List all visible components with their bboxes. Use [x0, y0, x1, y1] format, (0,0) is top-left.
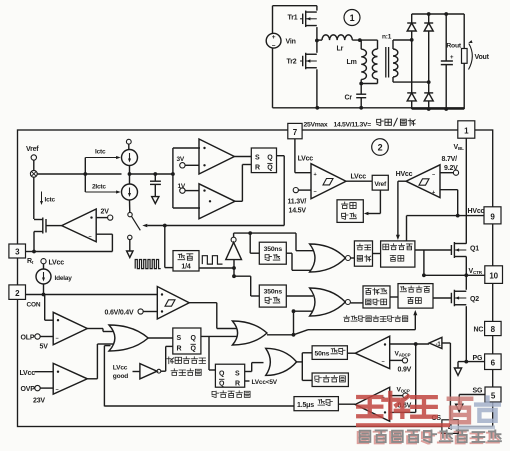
svg-text:+: +	[314, 172, 317, 178]
node oscillator cap	[128, 172, 132, 176]
svg-text:0.6V/0.4V: 0.6V/0.4V	[105, 310, 134, 317]
node Vref summing	[30, 160, 37, 177]
wire HVcc comp output to driver	[396, 181, 406, 240]
wire skip comp to OR gate	[189, 303, 237, 329]
svg-text:8.7V/: 8.7V/	[442, 156, 458, 163]
svg-text:3V: 3V	[177, 156, 185, 163]
transistor feedback	[34, 218, 62, 234]
node CON	[42, 293, 46, 297]
NOR gate low side	[310, 288, 351, 316]
wire HVcc to high driver	[406, 216, 408, 241]
wire OCP delay return	[104, 346, 110, 407]
svg-text:Q: Q	[219, 371, 225, 378]
svg-text:3: 3	[15, 248, 20, 257]
svg-text:OLP: OLP	[21, 335, 35, 342]
wire high drive to Q1 gate	[415, 249, 452, 251]
svg-text:Q2: Q2	[470, 296, 479, 303]
node CS sense bus	[414, 342, 418, 346]
transformer n:1	[361, 34, 429, 84]
svg-text:23V: 23V	[33, 398, 45, 405]
node HVcc	[456, 214, 460, 218]
ground PG	[454, 362, 461, 376]
current arrow 2Ictc	[85, 174, 120, 194]
svg-text:25Vmax: 25Vmax	[304, 121, 328, 128]
wire pin7 LVcc	[295, 139, 313, 173]
wire NOR2 to deadtime box	[351, 302, 363, 304]
wire OR B to delay boxes	[297, 353, 313, 381]
resistor Rout	[446, 14, 467, 109]
inverter LVcc good	[133, 364, 161, 379]
wire to pin3	[26, 251, 35, 253]
svg-text:+: +	[432, 190, 435, 196]
label auto reset voltage protection	[167, 357, 206, 376]
wire divider output	[199, 267, 234, 269]
svg-text:Idelay: Idelay	[55, 275, 73, 282]
svg-text:Q: Q	[219, 381, 225, 388]
wire startup comp to Vref block	[346, 174, 372, 182]
svg-text:LVcc<5V: LVcc<5V	[252, 379, 278, 386]
wire buffer to CS pin	[442, 343, 451, 420]
wire 350ns2 to NOR2	[286, 295, 313, 297]
svg-text:Q: Q	[191, 346, 197, 353]
wire op-amp feedback	[34, 234, 112, 251]
reference 0.6V/0.4V	[105, 309, 158, 317]
circled number 1	[344, 10, 360, 26]
svg-text:6: 6	[491, 358, 496, 367]
node Lm-Cr	[359, 82, 363, 86]
svg-text:Q: Q	[267, 165, 273, 172]
node VCO to divider	[163, 224, 167, 228]
current source 2Ictc	[122, 184, 138, 200]
svg-text:10: 10	[489, 272, 498, 281]
node comparator bus	[171, 172, 175, 176]
svg-text:LVcc: LVcc	[20, 370, 36, 377]
box low side gate drive	[398, 284, 433, 309]
transistor Q2	[451, 290, 479, 307]
wire OR1 to latch S	[148, 337, 173, 339]
buffer -1	[429, 337, 442, 348]
svg-text:S: S	[235, 371, 240, 378]
wire comp3V to latch S	[234, 156, 251, 158]
svg-text:350ns: 350ns	[264, 246, 283, 253]
svg-text:HVcc: HVcc	[468, 208, 485, 215]
capacitor Cr	[345, 84, 367, 108]
wire OLP comp to OR1	[87, 329, 113, 332]
wire HVcc rail	[407, 208, 485, 215]
svg-text:9.2V: 9.2V	[444, 165, 458, 172]
label LVcc good	[113, 365, 128, 380]
box level shift	[354, 241, 372, 266]
latch oscillator SR	[251, 148, 276, 173]
wire Q2 drain to Vctr	[465, 275, 467, 290]
diode D2	[424, 14, 433, 93]
wire deadtime to low driver	[390, 296, 398, 298]
output capacitor	[441, 12, 454, 111]
wire latch2 S input	[245, 363, 264, 372]
square wave high freq	[135, 260, 161, 269]
wire 1.5us to OCP comparator	[338, 403, 355, 405]
ground under Ct	[152, 197, 159, 204]
reference 2V	[96, 209, 113, 221]
svg-text:2: 2	[15, 289, 20, 298]
wire transistor source down	[33, 232, 35, 252]
wire pin1 Vbulk down	[454, 138, 467, 244]
wire Vref to internal bias	[364, 190, 381, 215]
svg-text:Ictc: Ictc	[45, 197, 56, 204]
svg-text:S: S	[255, 155, 260, 162]
node protection bus bottom	[292, 333, 296, 337]
node rectifier bottom	[427, 107, 431, 111]
current arrow Ictc	[85, 149, 120, 175]
wire to 350ns delay 1	[250, 233, 259, 253]
svg-text:−: −	[314, 190, 317, 196]
square wave low freq	[202, 256, 222, 264]
box 350ns delay 2	[259, 285, 286, 307]
svg-text:7: 7	[293, 128, 298, 137]
reference 1V	[178, 183, 200, 193]
switch frequency select	[127, 200, 141, 258]
svg-text:Lr: Lr	[337, 46, 344, 53]
svg-text:14.5V/11.3V=: 14.5V/11.3V=	[334, 121, 372, 128]
wire clock bus vertical	[233, 268, 235, 276]
svg-text:1/4: 1/4	[181, 264, 190, 271]
svg-text:PG: PG	[473, 355, 483, 362]
svg-text:R: R	[235, 381, 240, 388]
wire protection bus	[293, 311, 295, 335]
pin 6	[485, 354, 502, 370]
svg-text:good: good	[113, 373, 128, 380]
inductor Lr	[317, 35, 378, 53]
wire CON to OLP comp	[45, 295, 54, 321]
svg-text:−: −	[432, 173, 435, 179]
capacitor Ct	[150, 174, 161, 197]
op-amp 2V buffer	[62, 209, 96, 242]
wire Vctr rail	[424, 268, 485, 275]
wire thermal shutdown path	[294, 310, 418, 335]
svg-text:1: 1	[464, 126, 469, 135]
svg-text:Cr: Cr	[345, 95, 353, 102]
wire latch Q to OR A	[201, 335, 237, 337]
top label 25Vmax start/stop	[304, 118, 416, 129]
wire Ictc bus	[37, 173, 121, 175]
svg-text:Q: Q	[191, 335, 197, 342]
svg-text:Ictc: Ictc	[95, 149, 106, 156]
svg-text:NC: NC	[474, 327, 484, 334]
wire 350ns1 to NOR1 low input	[286, 253, 313, 270]
wire Vref line down	[33, 177, 35, 219]
svg-text:−: −	[89, 235, 92, 241]
svg-text:CON: CON	[27, 302, 41, 309]
wire CON rail	[26, 295, 158, 309]
wire Vin to bottom rail	[272, 48, 274, 108]
pin 1	[458, 121, 475, 138]
wire ADCP plus to CS bus	[390, 343, 430, 345]
svg-text:11.3V/: 11.3V/	[288, 199, 307, 206]
ground SG	[456, 395, 463, 412]
watermark big characters	[358, 393, 499, 422]
latch overcurrent	[215, 364, 244, 387]
svg-text:Q1: Q1	[470, 246, 479, 253]
wire NOR1 to level shift	[351, 257, 355, 259]
wire 50ns to ADCP comparator	[347, 352, 355, 354]
svg-text:Q: Q	[267, 155, 273, 162]
comparator HVcc	[406, 165, 440, 198]
wire inverter out east	[234, 232, 296, 234]
watermark slogan text	[358, 430, 501, 443]
NOR gate high side	[310, 244, 351, 272]
wire latch Q to VCO line	[277, 156, 285, 226]
node divider out	[232, 266, 236, 270]
label LVcc under 5V	[245, 379, 278, 386]
terminal LVcc OVP input	[20, 370, 54, 377]
wire VCO line	[142, 224, 284, 228]
node secondary top	[410, 38, 414, 42]
watermark underline	[356, 423, 495, 429]
svg-text:−: −	[56, 336, 59, 342]
svg-text:8: 8	[491, 325, 496, 334]
svg-text:Lm: Lm	[347, 59, 357, 66]
reference 0.9V ADCP	[390, 351, 412, 374]
box Vref	[372, 175, 388, 190]
svg-text:Tr2: Tr2	[287, 59, 297, 66]
label non-delayed thermal protection	[344, 315, 408, 321]
rectifier bottom rail	[412, 108, 465, 110]
wire driver return to Vctr	[423, 250, 425, 275]
circled number 2	[372, 139, 389, 156]
transistor Tr2	[287, 41, 317, 108]
wire Q2 source to PG	[465, 306, 467, 361]
node Ct tap	[153, 172, 157, 176]
svg-text:LVcc: LVcc	[49, 260, 65, 267]
transistor Tr1	[288, 6, 317, 41]
inductor Lm	[347, 40, 367, 83]
box internal bias	[337, 200, 363, 223]
wire clock tap to 350ns2	[234, 276, 259, 296]
svg-text:LVcc: LVcc	[351, 174, 367, 181]
svg-text:Vref: Vref	[374, 181, 387, 188]
reference 0.6V OCP	[390, 387, 412, 410]
voltage source Vin	[266, 33, 295, 49]
divider 1/4 box	[173, 251, 199, 271]
svg-text:350ns: 350ns	[264, 289, 283, 296]
bottom rail primary	[273, 106, 465, 110]
pin 2	[9, 285, 26, 300]
terminal LVcc Idelay	[41, 259, 64, 267]
svg-text:1.5μs: 1.5μs	[297, 402, 314, 409]
svg-text:R: R	[177, 346, 182, 353]
comparator OCP	[355, 387, 390, 421]
comparator skip 0.6V/0.4V	[157, 287, 189, 320]
wire low drive to Q2 gate	[433, 297, 451, 299]
current source Idelay	[36, 264, 72, 295]
latch auto-restart SR	[173, 328, 201, 354]
reference 8.7V/9.2V	[440, 156, 459, 175]
node rectifier top	[427, 12, 431, 16]
node PG	[464, 360, 468, 364]
comparator 3V	[199, 139, 234, 174]
label overcurrent protection	[212, 391, 250, 398]
rectifier top rail	[412, 13, 465, 15]
svg-text:HVcc: HVcc	[396, 171, 413, 178]
node protection bus top	[292, 309, 296, 313]
terminal Vref	[26, 146, 39, 160]
OR gate A	[232, 321, 267, 345]
wire 1.5us line west	[104, 405, 294, 407]
transistor Q1	[451, 242, 479, 258]
svg-text:LVcc: LVcc	[298, 156, 314, 163]
node half-bridge switch	[315, 39, 319, 43]
Vout arrow and label	[468, 40, 489, 69]
OR gate B	[266, 348, 297, 375]
svg-text:50ns: 50ns	[315, 351, 330, 358]
svg-text:-1: -1	[436, 342, 442, 348]
node Vctr driver	[422, 273, 426, 277]
box 50ns delay	[312, 346, 347, 360]
wire OVP comp to OR1	[87, 344, 113, 379]
terminal OLP 5V	[21, 334, 54, 351]
inverter clock	[226, 233, 242, 268]
diode D3	[407, 93, 416, 109]
terminal above current source	[126, 139, 131, 149]
wire between current sources	[129, 166, 131, 185]
svg-text:Vin: Vin	[286, 39, 296, 46]
diode D4	[424, 93, 433, 109]
svg-text:SG: SG	[473, 388, 483, 395]
wire comp1V to latch R	[235, 165, 251, 202]
box 1.5us delay	[294, 397, 338, 411]
comparator LVcc startup	[311, 164, 346, 199]
IC block border	[18, 130, 493, 427]
OR gate fault 1	[109, 325, 148, 351]
pin 8	[485, 321, 502, 335]
wire OR A output	[267, 334, 294, 336]
svg-text:Vout: Vout	[475, 54, 490, 61]
diode D1	[407, 14, 416, 93]
wire HVcc comp plus input	[440, 190, 458, 216]
wire latch2 Q up	[209, 336, 215, 370]
svg-text:0.9V: 0.9V	[398, 367, 412, 374]
reference 11.3V/14.5V	[288, 188, 312, 215]
pin 9	[484, 207, 501, 224]
svg-text:OVP: OVP	[21, 386, 36, 393]
wire CS bus down	[390, 344, 416, 412]
svg-text:2Ictc: 2Ictc	[92, 184, 106, 191]
pin 5	[485, 387, 501, 402]
node 350ns tap	[248, 231, 252, 235]
wire level shift to high driver	[373, 253, 381, 255]
wire SG rail	[459, 388, 485, 395]
wire osc cap bus	[130, 173, 173, 175]
reference 3V	[177, 156, 200, 168]
wire Vin to top rail	[273, 6, 317, 34]
box 350ns delay 1	[259, 242, 286, 264]
svg-text:Vref: Vref	[26, 146, 39, 153]
terminal OVP 23V	[21, 385, 54, 404]
svg-text:14.5V: 14.5V	[289, 208, 307, 215]
svg-text:LVcc: LVcc	[113, 365, 128, 372]
wire bus to 1V comparator	[173, 174, 200, 208]
comparator ADCP	[355, 336, 390, 369]
node Ictc split	[83, 172, 87, 176]
pin 3	[9, 244, 26, 258]
svg-text:R: R	[255, 165, 260, 172]
comparator OVP	[53, 363, 87, 394]
svg-text:Rout: Rout	[446, 43, 462, 50]
comparator 1V	[199, 184, 235, 219]
wire NOR2 input from protection bus	[294, 310, 314, 312]
pin 4	[442, 420, 458, 434]
wire VCO to divider	[165, 226, 173, 268]
svg-text:S: S	[177, 335, 182, 342]
node Vctr Q1	[464, 273, 468, 277]
box high side gate drive	[381, 241, 415, 267]
current source Ictc	[122, 150, 138, 166]
wire bus to 3V comparator	[173, 148, 200, 174]
box over temperature protection	[312, 373, 348, 387]
pin 10	[485, 266, 503, 284]
svg-text:5V: 5V	[40, 344, 49, 351]
pin 7	[288, 123, 302, 138]
current arrow Ictc annotation	[40, 192, 55, 206]
svg-text:n:1: n:1	[382, 34, 392, 41]
svg-text:Tr1: Tr1	[288, 15, 298, 22]
box dead time generation	[363, 286, 390, 308]
wire inverter to latch R	[161, 346, 173, 371]
svg-text:−: −	[382, 360, 385, 366]
wire PG rail	[458, 355, 485, 362]
wire Q1 source to Vctr	[465, 257, 467, 276]
svg-text:2V: 2V	[101, 209, 110, 216]
svg-text:−: −	[56, 388, 59, 394]
node secondary bottom	[427, 80, 431, 84]
node Lr-Lm	[358, 38, 362, 42]
node clock tap 2	[232, 274, 236, 278]
svg-text:1: 1	[350, 13, 355, 23]
svg-text:+: +	[272, 34, 276, 41]
wire clock to NOR1 top input	[296, 233, 313, 251]
node Cr bottom	[359, 106, 363, 110]
node Rt	[32, 250, 36, 254]
comparator OLP	[53, 312, 87, 345]
svg-text:2: 2	[378, 142, 383, 152]
